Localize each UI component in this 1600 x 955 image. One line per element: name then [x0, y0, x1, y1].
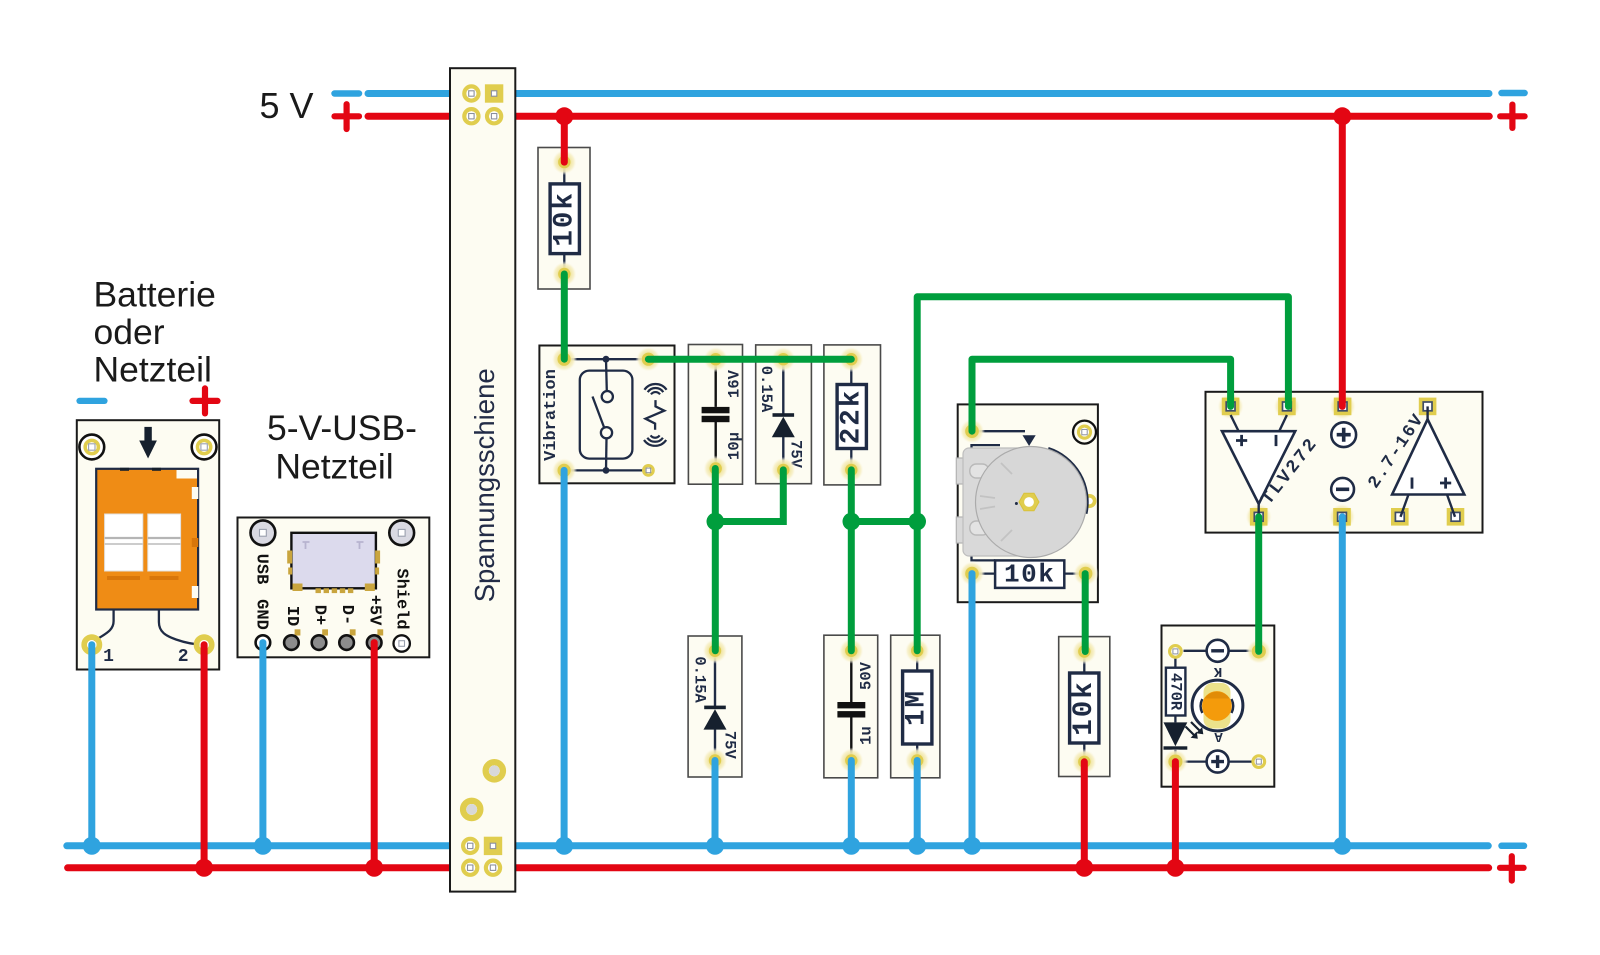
svg-text:USB: USB: [252, 554, 271, 585]
USB connector body: [291, 533, 376, 589]
node: red rail junction R4: [1075, 859, 1093, 877]
switch contacts and lever: [605, 359, 608, 391]
wire: blue vibration to rail: [561, 470, 568, 845]
pad fuse F2 0.15A 75V bottom: [702, 748, 728, 774]
battery cell right: [148, 514, 181, 571]
plus symbol top-left: [335, 113, 360, 119]
USB power board outline: [238, 518, 430, 658]
capacitor C2 1u 50V board: [824, 635, 878, 778]
node: top rail junction to R 10k: [555, 107, 573, 125]
pad C2 bottom: [838, 748, 864, 774]
svg-text:Shield: Shield: [391, 568, 410, 629]
node: green junction R3: [908, 513, 926, 531]
svg-text:Netzteil: Netzteil: [94, 350, 212, 390]
USB connector legs: [316, 588, 321, 593]
pad R2 bottom: [838, 457, 864, 483]
pad R3 top: [904, 638, 930, 664]
pad R1 bottom: [551, 261, 577, 287]
LED diode symbol: [1174, 716, 1176, 723]
plus symbol bottom-right: [1500, 865, 1524, 871]
wire: blue USB GND to rail: [259, 643, 266, 846]
node: blue rail junction x=564.1: [555, 837, 573, 855]
pad pot bottom-right: [1073, 561, 1099, 587]
pad LED top-right: [1246, 638, 1272, 664]
wire: red USB +5V to rail: [371, 643, 378, 868]
USB pin +5V: [377, 629, 383, 635]
pot mount hole top-right: [1073, 421, 1096, 444]
node: blue rail junction x=91.8: [83, 837, 101, 855]
wire: green C1 bottom to F2 top: [712, 469, 719, 651]
svg-text:10µ: 10µ: [726, 432, 744, 460]
node: top rail junction to op-amp V+: [1333, 107, 1351, 125]
pad R4 bottom: [1071, 749, 1097, 775]
wire: red LED to rail: [1172, 762, 1179, 868]
wire: red 5V rail to op-amp V+: [1339, 116, 1346, 406]
node: blue rail junction x=262.9: [254, 837, 272, 855]
wire: green junction link: [851, 518, 917, 525]
svg-text:22k: 22k: [836, 389, 867, 445]
wire: blue R3 to rail: [914, 761, 921, 846]
pad fuse F1 0.15A 75V top: [770, 346, 796, 372]
wire: green op-amp OUT to LED: [1255, 517, 1262, 652]
svg-text:5 V: 5 V: [260, 85, 314, 126]
USB mount hole top-right: [389, 520, 414, 545]
svg-text:Vibration: Vibration: [542, 369, 561, 461]
wire: red R4 to rail: [1081, 762, 1088, 868]
USB pin D+: [322, 629, 328, 635]
pad pot top-left: [959, 418, 985, 444]
node: blue rail junction x=715: [706, 837, 724, 855]
plus symbol top-right: [1500, 113, 1524, 119]
wire: blue battery minus to rail: [88, 645, 95, 846]
pad U1 IN- (top): [1273, 392, 1301, 420]
svg-text:+5V: +5V: [365, 595, 384, 626]
pad U1 aux bottom 3: [1391, 508, 1409, 526]
svg-text:0.15A: 0.15A: [757, 366, 775, 413]
pad U1 aux bottom 4: [1447, 508, 1465, 526]
svg-text:ID: ID: [282, 606, 301, 626]
LED board outline: [1162, 626, 1275, 787]
pot grey housing: [956, 458, 964, 484]
USB mount hole top-left: [251, 520, 276, 545]
wire: bottom plus rail (red): [68, 864, 1489, 871]
svg-text:D-: D-: [337, 605, 356, 625]
wire: green R3 riser to op-amp IN-: [917, 297, 1288, 651]
svg-text:oder: oder: [94, 312, 165, 352]
resistor R2 22k board: [824, 345, 881, 485]
wire: top plus rail (red, 5V): [368, 113, 1489, 120]
battery board outline: [77, 420, 219, 669]
svg-text:Spannungsschiene: Spannungsschiene: [469, 368, 500, 602]
wire: green vibration to C1, F1, R2: [648, 356, 851, 363]
pad vibration top-left: [551, 346, 577, 372]
resistor R4 10k board: [1059, 637, 1110, 777]
pad LED top-left (square hole): [1170, 646, 1182, 658]
svg-text:5-V-USB-: 5-V-USB-: [267, 408, 417, 448]
pot shaft: [1019, 493, 1039, 510]
svg-text:Batterie: Batterie: [94, 275, 216, 315]
plus terminal symbol: [1184, 760, 1207, 762]
svg-text:1: 1: [103, 647, 114, 667]
pad vibration top-right: [635, 346, 661, 372]
svg-text:K: K: [1213, 663, 1222, 679]
wire: green R1 to vibration sensor: [561, 274, 568, 359]
node: blue rail junction x=851.3: [842, 837, 860, 855]
pad LED bottom-left: [1162, 749, 1188, 775]
470R resistor box: [1174, 659, 1176, 668]
node: red rail junction USB: [365, 859, 383, 877]
fuse F1 0.15A 75V board: [756, 345, 812, 484]
svg-text:470R: 470R: [1167, 673, 1185, 711]
pot right-middle pad: [1084, 496, 1094, 506]
wire: blue F2 to rail: [712, 761, 719, 846]
pad R4 top: [1071, 639, 1097, 665]
op-amp triangle symbol: [1231, 415, 1239, 431]
pad R1 top: [551, 149, 577, 175]
svg-text:2: 2: [178, 647, 189, 667]
pad fuse F1 0.15A 75V bottom: [770, 457, 796, 483]
node: red rail junction LED: [1166, 859, 1184, 877]
pad C2 top: [838, 638, 864, 664]
USB pin D-: [350, 629, 356, 635]
pad group top of rail board: [464, 86, 478, 100]
wire: blue op-amp GND to rail: [1339, 517, 1346, 846]
wire: green branch to F1 bottom: [715, 470, 783, 522]
plus power symbol: [1331, 422, 1356, 447]
wire: blue pot to rail: [969, 574, 976, 846]
minus power symbol: [1331, 478, 1354, 501]
svg-text:10k: 10k: [549, 191, 580, 247]
battery pad 1: [84, 637, 99, 652]
wire: blue C2 to rail: [848, 761, 855, 846]
minus symbol top-right: [1502, 90, 1525, 97]
battery mount hole right: [192, 435, 217, 460]
battery pad 2: [197, 637, 212, 652]
svg-text:50V: 50V: [858, 661, 876, 690]
svg-text:1M: 1M: [902, 689, 933, 726]
pad pot bottom-left: [959, 561, 985, 587]
node: green junction C1/F1/F2: [707, 513, 725, 531]
pad group bottom of rail board: [463, 839, 477, 853]
node: blue rail junction x=1342.3: [1333, 837, 1351, 855]
svg-text:D+: D+: [310, 605, 329, 625]
vibration bottom trace: [564, 469, 648, 471]
minus symbol bottom-right: [1502, 843, 1525, 850]
wire: red battery plus to rail: [201, 645, 208, 868]
pad C1 bottom: [703, 456, 729, 482]
USB shield pad bottom-right: [394, 635, 410, 651]
minus symbol top-left: [335, 90, 360, 97]
minus symbol battery: [80, 398, 105, 404]
node: green junction R2/C2: [843, 513, 861, 531]
wire: green R2 bottom to C2 top: [848, 470, 855, 651]
wire: bottom minus rail (blue): [67, 842, 1489, 849]
pad U1 NC (top right): [1419, 398, 1437, 416]
wire: green pot to R4: [1082, 574, 1089, 652]
vibration top trace: [564, 358, 648, 360]
pot 10k value box: [972, 572, 995, 574]
node: red rail junction battery: [195, 859, 213, 877]
battery cell left: [105, 514, 143, 571]
LED body: [1192, 680, 1243, 731]
capacitor C1 10u 16V board: [688, 345, 742, 485]
vibration waves icon: [646, 400, 665, 430]
pad U1 GND (bottom): [1328, 503, 1356, 531]
vibration sensor board: [539, 346, 674, 484]
node: blue rail junction x=917.2: [908, 837, 926, 855]
wire: green pot wiper to op-amp IN+: [972, 359, 1231, 431]
op-amp U1 TLV272 board: [1206, 392, 1483, 533]
pad vibration bottom-right (square hole): [644, 466, 654, 476]
battery mount hole left: [79, 435, 104, 460]
svg-text:GND: GND: [252, 599, 271, 630]
fuse F2 0.15A 75V board: [688, 636, 742, 777]
power supply triangle symbol: [1426, 406, 1428, 419]
pad R3 bottom: [904, 748, 930, 774]
USB pin ID: [295, 629, 301, 635]
pad U1 V+ (top): [1329, 392, 1357, 420]
pot symbol outline: [972, 430, 1025, 432]
pad U1 IN+ (top): [1217, 392, 1245, 420]
USB pin GND: [256, 635, 271, 650]
battery holder (orange): [96, 469, 198, 610]
svg-text:0.15A: 0.15A: [691, 656, 709, 703]
LED emission arrows: [1186, 722, 1202, 737]
node: blue rail junction x=972: [963, 837, 981, 855]
svg-text:10k: 10k: [1004, 560, 1055, 590]
wire: red 5V rail to R1: [561, 116, 568, 162]
pad C1 top: [703, 346, 729, 372]
pot dial: [1048, 448, 1087, 514]
polarity arrow: [144, 427, 151, 442]
svg-text:1u: 1u: [858, 726, 876, 745]
battery trace to pad 2: [159, 610, 204, 645]
resistor R3 1M board: [891, 635, 940, 778]
switch symbol rounded box: [580, 371, 633, 459]
svg-text:Netzteil: Netzteil: [275, 447, 393, 487]
battery trace to pad 1: [92, 610, 114, 645]
USB connector gold tabs: [287, 551, 292, 564]
svg-text:16V: 16V: [726, 369, 744, 398]
wire: top minus rail (blue, 5V): [368, 90, 1489, 97]
potentiometer P1 10k board: [958, 404, 1098, 602]
pad R2 top: [838, 346, 864, 372]
large via pads on rail board: [486, 762, 503, 779]
svg-text:10k: 10k: [1069, 680, 1100, 736]
plus symbol battery: [193, 398, 218, 404]
pad LED bottom-right (square hole): [1253, 756, 1265, 768]
minus terminal symbol: [1184, 650, 1207, 652]
resistor R1 10k board: [538, 148, 590, 290]
USB connector inner marks: [303, 542, 310, 549]
pad fuse F2 0.15A 75V top: [702, 638, 728, 664]
voltage rail board (Spannungsschiene): [450, 68, 515, 891]
pad U1 OUT (bottom): [1245, 503, 1273, 531]
pad vibration bottom-left: [551, 457, 577, 483]
